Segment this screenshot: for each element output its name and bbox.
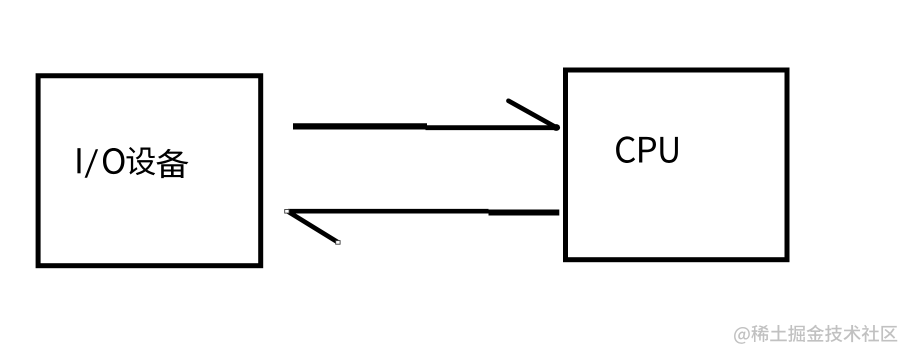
watermark @稀土掘金技术社区 — [734, 325, 897, 344]
box CPU — [566, 70, 788, 260]
arrowhead bottom barb — [288, 211, 338, 242]
endpoint handle at barb end — [336, 241, 340, 245]
label I/O设备 — [77, 147, 188, 178]
wire bottom arrow shaft segment 1 — [288, 209, 489, 214]
arrowhead top barb — [509, 101, 557, 128]
arrowhead top tip blob — [552, 124, 560, 131]
wire top arrow shaft segment 1 — [293, 123, 427, 129]
box I/O device — [38, 76, 261, 266]
wire top arrow shaft segment 2 — [426, 125, 559, 130]
endpoint handle at arrow tip — [285, 210, 289, 214]
label CPU — [616, 136, 678, 163]
wire bottom arrow shaft segment 2 — [489, 210, 560, 216]
